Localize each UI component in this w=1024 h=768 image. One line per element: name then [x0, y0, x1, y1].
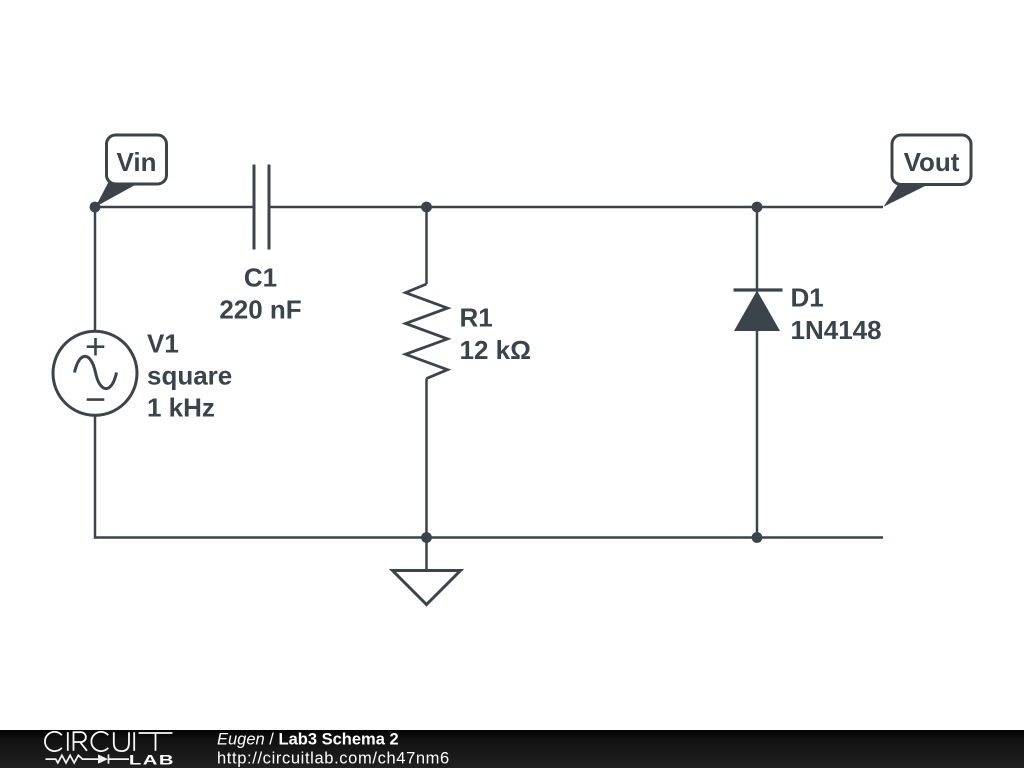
- svg-text:Eugen / Lab3 Schema 2: Eugen / Lab3 Schema 2: [217, 731, 399, 749]
- flag Vout tail: [884, 183, 928, 207]
- svg-text:LAB: LAB: [129, 751, 175, 767]
- svg-text:220 nF: 220 nF: [219, 294, 301, 324]
- node dot Vin: [90, 202, 101, 213]
- V1 sine glyph: [75, 356, 117, 388]
- svg-text:square: square: [147, 361, 232, 391]
- wire left vertical upper (Vin node to V1 top): [94, 207, 97, 332]
- node dot bottom R1/ground: [421, 532, 432, 543]
- wire R1 bottom (resistor to bottom rail): [425, 379, 428, 538]
- node dot top D1: [752, 202, 763, 213]
- node dot top R1: [421, 202, 432, 213]
- capacitor C1 plates: [254, 165, 269, 250]
- diode D1 cathode bar: [734, 288, 783, 291]
- diode D1 triangle: [734, 291, 780, 332]
- flag Vin tail: [96, 182, 137, 207]
- wire R1 top (top rail to resistor): [425, 207, 428, 284]
- ground symbol triangle: [393, 571, 461, 605]
- resistor R1 zigzag: [406, 284, 448, 379]
- footer bar: [0, 730, 1024, 768]
- svg-text:R1: R1: [460, 303, 493, 333]
- logo diode triangle: [98, 754, 108, 763]
- svg-text:http://circuitlab.com/ch47nm6: http://circuitlab.com/ch47nm6: [217, 749, 450, 767]
- flag Vout box: [892, 135, 971, 185]
- node dot bottom D1: [752, 532, 763, 543]
- svg-text:C1: C1: [244, 262, 277, 292]
- svg-text:Vout: Vout: [904, 147, 960, 177]
- wire top-left (Vin node to C1 left plate): [95, 206, 254, 209]
- flag Vin box: [107, 135, 167, 184]
- V1 minus sign: [87, 398, 105, 401]
- svg-text:Vin: Vin: [117, 147, 157, 177]
- svg-text:1 kHz: 1 kHz: [147, 393, 215, 423]
- svg-text:12 kΩ: 12 kΩ: [460, 335, 531, 365]
- logo CIRCUIT letters: [45, 732, 172, 751]
- svg-text:1N4148: 1N4148: [791, 315, 882, 345]
- voltage source V1 circle: [53, 331, 137, 415]
- wire left vertical lower + bottom rail (V1 bottom to ground rail to right end): [95, 415, 883, 538]
- svg-text:D1: D1: [791, 283, 824, 313]
- wire top-right (C1 right plate to Vout tail): [270, 206, 884, 209]
- V1 plus sign: [87, 338, 105, 356]
- wire ground stub: [425, 538, 428, 572]
- logo LAB text: [129, 751, 175, 767]
- wire D1 top (top rail to diode cathode): [756, 207, 759, 291]
- wire D1 bottom (diode anode to bottom rail): [756, 331, 759, 538]
- logo resistor-diode glyph: [46, 754, 130, 763]
- svg-text:V1: V1: [147, 329, 179, 359]
